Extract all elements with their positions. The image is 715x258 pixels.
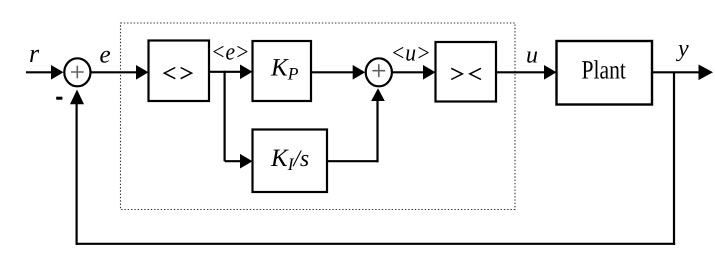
deadzone block U1 "< >": [149, 41, 210, 102]
svg-text:y: y: [676, 36, 689, 62]
arrowhead into Plant: [544, 65, 557, 80]
Plant block: [557, 41, 653, 105]
wire deadzone out to Kp: [209, 71, 242, 73]
svg-text:<e>: <e>: [211, 40, 250, 66]
arrowhead into Kp: [240, 65, 253, 80]
arrowhead into S2: [353, 65, 366, 80]
wire Plant output: [652, 71, 700, 73]
wire saturation out to Plant: [496, 71, 546, 73]
arrowhead into Ki/s: [240, 154, 253, 169]
glyph < in U1: [164, 68, 175, 79]
arrowhead into saturation: [423, 65, 436, 80]
arrowhead into summing junction S1: [51, 65, 64, 80]
wire S2 to saturation block: [392, 71, 425, 73]
wire Ki/s out vertical up to S2: [376, 99, 378, 162]
integrator block Ki/s: [253, 130, 328, 193]
minus label at S1: [56, 97, 62, 100]
wire feedback bottom horizontal: [76, 243, 676, 245]
arrowhead into deadzone block: [136, 65, 149, 80]
dotted controller boundary box: [121, 23, 516, 210]
plus sign in S1: [71, 66, 84, 79]
svg-text:r: r: [29, 39, 40, 68]
wire e: S1 to deadzone block: [91, 71, 138, 73]
wire Ki/s out horizontal: [327, 160, 378, 162]
svg-text:e: e: [100, 42, 111, 69]
arrowhead up into S2: [371, 88, 385, 101]
arrowhead up into S1: [70, 90, 84, 105]
arrowhead output y: [699, 65, 714, 81]
wire branch vertical down to Ki/s row: [224, 71, 226, 162]
wire Kp out to summing junction S2: [311, 71, 353, 73]
plus sign in S2: [372, 64, 385, 77]
summing junction S1: [64, 58, 90, 86]
glyph < in U2: [470, 68, 481, 79]
wire branch horizontal into Ki/s: [225, 160, 242, 162]
summing junction S2: [366, 58, 392, 86]
glyph > in U2: [451, 68, 462, 79]
gain block Kp: [253, 41, 312, 101]
wire feedback vertical down from pickoff: [673, 72, 675, 245]
wire r input: [26, 71, 53, 73]
svg-text:u: u: [526, 42, 538, 68]
saturation block U2 "> <": [436, 42, 497, 102]
svg-text:Plant: Plant: [582, 54, 627, 84]
glyph > in U1: [181, 68, 192, 79]
svg-text:<u>: <u>: [391, 41, 431, 67]
wire feedback left vertical up to S1: [75, 102, 77, 245]
